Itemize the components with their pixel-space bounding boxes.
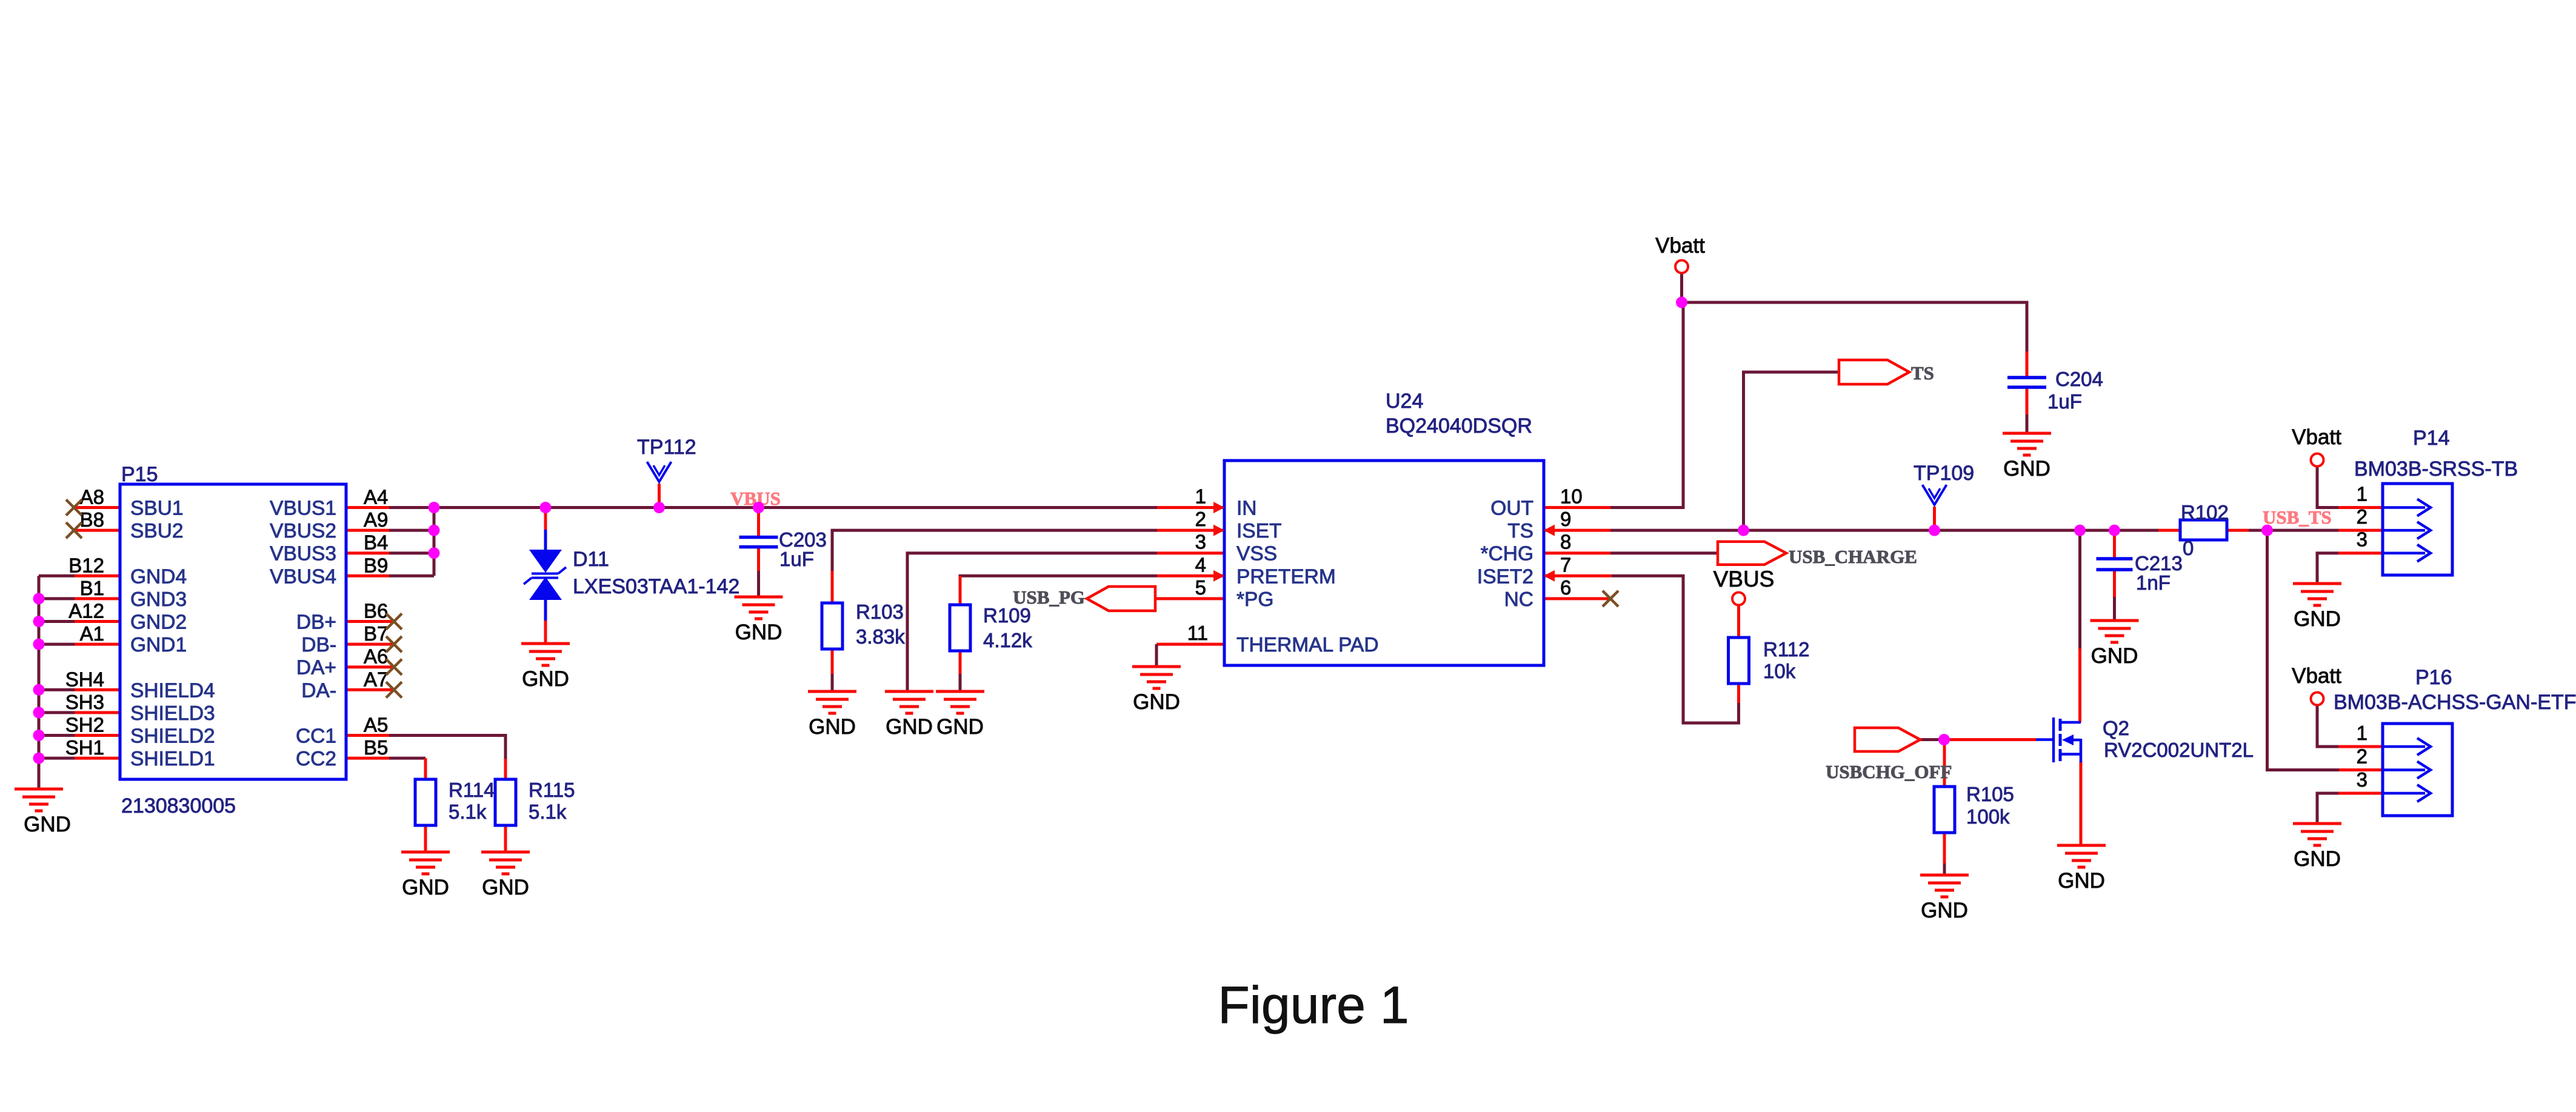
svg-text:1: 1 (1195, 485, 1206, 508)
ground symbol THERMAL PAD (1132, 667, 1181, 714)
power port Vbatt at P16 (2311, 693, 2324, 705)
svg-text:5: 5 (1195, 576, 1206, 599)
wire DB- stub no-connect (346, 643, 393, 646)
resistor R114 value (449, 801, 487, 823)
svg-text:GND2: GND2 (130, 611, 187, 634)
svg-text:GND: GND (1921, 899, 1968, 922)
wire VBUS2 VBUS3 VBUS4 bus (346, 508, 434, 576)
svg-text:3.83k: 3.83k (856, 625, 905, 648)
resistor R109 refdes (983, 604, 1031, 627)
svg-text:TP109: TP109 (1914, 462, 1974, 485)
svg-text:10: 10 (1560, 485, 1583, 508)
power port Vbatt at P16 label (2292, 664, 2341, 688)
port flag USB_CHARGE (1718, 542, 1786, 565)
wire R105 top (1943, 740, 1946, 787)
no-connect X DB- (386, 636, 402, 652)
svg-text:1: 1 (2357, 722, 2367, 744)
svg-text:5.1k: 5.1k (449, 801, 487, 823)
ground symbol C204 (2003, 433, 2051, 481)
svg-text:A9: A9 (364, 508, 388, 531)
diode D11 value (573, 575, 739, 598)
junction VBUS at D11 (540, 502, 552, 513)
svg-text:BM03B-SRSS-TB: BM03B-SRSS-TB (2354, 458, 2518, 481)
wire VSS net to GND (907, 553, 1224, 691)
testpoint TP112 refdes (637, 436, 696, 459)
IC U24 body (1224, 461, 1544, 665)
no-connect X NC (1603, 591, 1618, 607)
power port Vbatt at P14 label (2292, 425, 2341, 449)
ground symbol Q2 (2057, 845, 2106, 893)
capacitor C213 refdes (2135, 552, 2183, 574)
wire SHIELD3 stub (39, 711, 120, 714)
svg-text:*CHG: *CHG (1481, 543, 1533, 565)
svg-text:100k: 100k (1966, 805, 2010, 828)
wire R114 to GND (424, 825, 427, 852)
junction USB_TS at C213 (2109, 525, 2120, 536)
resistor R115 (495, 779, 516, 825)
ground symbol R103 (808, 691, 856, 739)
svg-text:B12: B12 (68, 554, 104, 576)
svg-text:2: 2 (2357, 745, 2367, 768)
svg-text:GND: GND (2294, 607, 2341, 631)
port flag USB_PG (1087, 587, 1155, 611)
IC U24 right pin names (1477, 498, 1533, 611)
svg-text:SHIELD3: SHIELD3 (130, 702, 215, 725)
svg-text:DA-: DA- (301, 679, 336, 702)
resistor R109 (950, 605, 970, 651)
svg-text:OUT: OUT (1490, 498, 1533, 520)
junction VBUS at bus (429, 502, 440, 513)
svg-text:SBU2: SBU2 (130, 520, 184, 542)
ground symbol P16 (2293, 824, 2341, 871)
capacitor C203 refdes (779, 528, 827, 551)
wire C204 to GND (2026, 388, 2029, 433)
port flag USB_CHARGE label (1789, 546, 1917, 567)
junction VBUS at C203 (753, 502, 764, 513)
connector P15 body (120, 484, 346, 779)
svg-text:A1: A1 (80, 622, 104, 645)
ground symbol D11 (521, 644, 570, 691)
wire D11 to GND (544, 620, 547, 644)
svg-text:GND: GND (2091, 644, 2138, 668)
IC U24 value BQ24040DSQR (1386, 415, 1532, 438)
resistor R103 refdes (856, 601, 904, 623)
junction USB_TS at TP109 (1929, 525, 1940, 536)
power port VBUS label (1713, 567, 1775, 591)
svg-text:B8: B8 (80, 508, 104, 531)
ground symbol P14 (2293, 584, 2341, 631)
svg-text:GND: GND (936, 715, 984, 739)
wire TP109 stub (1933, 507, 1936, 530)
resistor R103 value (856, 625, 905, 648)
svg-text:B6: B6 (364, 600, 388, 622)
svg-text:GND: GND (886, 715, 933, 739)
svg-text:B4: B4 (364, 531, 388, 554)
svg-text:SH1: SH1 (65, 736, 104, 759)
svg-text:LXES03TAA1-142: LXES03TAA1-142 (573, 575, 739, 598)
svg-text:A5: A5 (364, 714, 388, 736)
port flag USBCHG_OFF label (1826, 761, 1952, 782)
wire DA+ stub no-connect (346, 665, 393, 668)
svg-text:1uF: 1uF (779, 548, 814, 570)
svg-text:GND: GND (2294, 847, 2341, 871)
svg-text:A8: A8 (80, 486, 104, 508)
svg-text:TS: TS (1911, 362, 1934, 384)
svg-text:2: 2 (1195, 508, 1206, 530)
svg-text:9: 9 (1560, 508, 1571, 530)
ground symbol C213 (2090, 621, 2139, 668)
wire PRETERM net to R109 (960, 576, 1224, 605)
svg-text:RV2C002UNT2L: RV2C002UNT2L (2104, 739, 2254, 761)
connector P15 refdes (121, 463, 158, 486)
connector P15 left pin designators (65, 486, 104, 759)
ground symbol R115 (481, 852, 530, 899)
svg-text:1uF: 1uF (2047, 390, 2082, 413)
no-connect X DA- (386, 682, 402, 697)
svg-text:SHIELD1: SHIELD1 (130, 748, 215, 770)
svg-text:SHIELD2: SHIELD2 (130, 725, 215, 748)
svg-text:DB-: DB- (301, 634, 336, 656)
svg-text:GND: GND (2003, 457, 2050, 481)
ground symbol VSS (885, 691, 933, 739)
svg-text:SH3: SH3 (65, 691, 104, 713)
pin arrow ISET (1213, 525, 1224, 536)
transistor Q2 MOSFET (2036, 717, 2081, 762)
no-connect X SBU2 (66, 522, 82, 538)
svg-text:TS: TS (1507, 520, 1533, 542)
transistor Q2 value (2104, 739, 2254, 761)
svg-text:GND4: GND4 (130, 565, 187, 588)
connector P16 pin numbers (2357, 722, 2367, 791)
svg-text:BQ24040DSQR: BQ24040DSQR (1386, 415, 1532, 438)
wire USB_TS to P16 pin2 (2267, 530, 2383, 770)
svg-text:D11: D11 (573, 548, 609, 571)
connector P15 right pin names (270, 498, 336, 771)
svg-text:Vbatt: Vbatt (2292, 664, 2341, 688)
pin arrow ISET2 (1544, 570, 1555, 582)
diode D11 refdes (573, 548, 609, 571)
junction USB_TS at Q2 drain (2074, 525, 2086, 536)
caption Figure 1 (1218, 976, 1409, 1034)
wire Vbatt to P16 pin1 (2317, 705, 2383, 747)
pin arrow IN (1213, 502, 1224, 513)
svg-text:SH4: SH4 (65, 668, 104, 690)
wire DA- stub no-connect (346, 688, 393, 691)
svg-text:SBU1: SBU1 (130, 498, 184, 520)
port flag USBCHG_OFF (1855, 728, 1920, 751)
wire Vbatt rail to C204 (1682, 273, 2027, 378)
svg-text:1nF: 1nF (2136, 571, 2171, 594)
wire CC2 to R114 (346, 758, 425, 779)
wire C213 to GND (2113, 570, 2116, 621)
power port Vbatt label (1655, 234, 1705, 258)
svg-text:R115: R115 (529, 779, 575, 801)
transistor Q2 refdes (2103, 717, 2129, 739)
pin arrow TS (1544, 525, 1555, 536)
wire GND bus left vertical (38, 576, 41, 789)
capacitor C203 value (779, 548, 814, 570)
junction GND bus 4 (33, 684, 45, 696)
wire D11 top (544, 508, 547, 531)
svg-text:U24: U24 (1386, 390, 1423, 413)
ground symbol R105 (1920, 875, 1969, 922)
svg-text:VBUS1: VBUS1 (270, 498, 336, 520)
svg-text:6: 6 (1560, 576, 1571, 599)
svg-text:ISET: ISET (1236, 520, 1281, 542)
svg-text:Figure 1: Figure 1 (1218, 976, 1409, 1034)
connector P16 value BM03B-ACHSS-GAN-ETF (2334, 691, 2576, 714)
svg-text:BM03B-ACHSS-GAN-ETF: BM03B-ACHSS-GAN-ETF (2334, 691, 2576, 714)
svg-text:A7: A7 (364, 668, 388, 690)
wire SBU2 stub no-connect (74, 529, 120, 532)
wire ISET2 to R112 (1544, 576, 1739, 723)
svg-text:GND: GND (2058, 869, 2105, 893)
testpoint TP112 (647, 462, 672, 482)
svg-text:R102: R102 (2181, 501, 2229, 524)
svg-text:NC: NC (1504, 588, 1533, 611)
wire CC1 to R115 (346, 736, 506, 780)
wire TS net USB_TS run (1544, 529, 2383, 532)
svg-text:B1: B1 (80, 577, 104, 599)
resistor R114 (415, 779, 436, 825)
svg-text:B7: B7 (364, 622, 388, 645)
svg-text:USB_TS: USB_TS (2263, 507, 2332, 528)
connector P16 pin arrows (2383, 738, 2431, 802)
wire NC stub no-connect (1544, 597, 1610, 600)
port flag TS label (1911, 362, 1934, 384)
svg-text:GND: GND (735, 621, 782, 644)
svg-text:B5: B5 (364, 736, 388, 759)
resistor R109 value (983, 629, 1032, 651)
svg-text:R105: R105 (1966, 783, 2014, 805)
connector P15 value 2130830005 (121, 794, 236, 817)
svg-text:Vbatt: Vbatt (2292, 425, 2341, 449)
svg-text:VBUS2: VBUS2 (270, 520, 336, 542)
wire R109 to GND (959, 651, 962, 691)
no-connect X SBU1 (66, 500, 82, 516)
testpoint TP109 (1923, 485, 1947, 505)
wire P16 pin3 to GND (2317, 793, 2383, 824)
svg-text:3: 3 (1195, 531, 1206, 553)
wire THERMAL PAD to GND (1156, 644, 1224, 667)
junction Q2 gate (1938, 734, 1950, 745)
capacitor C213 value (2136, 571, 2171, 594)
wire DB+ stub no-connect (346, 620, 393, 623)
wire VBUS port to R112 (1737, 605, 1740, 638)
connector P14 pin numbers (2357, 483, 2367, 551)
svg-text:VSS: VSS (1236, 543, 1277, 565)
connector P14 body (2383, 484, 2452, 575)
connector P14 refdes (2413, 427, 2450, 450)
connector P16 body (2383, 724, 2452, 816)
svg-text:Vbatt: Vbatt (1655, 234, 1705, 258)
pin arrow PRETERM (1213, 570, 1224, 582)
resistor R105 refdes (1966, 783, 2014, 805)
junction VBUS2 (429, 525, 440, 536)
port flag USB_PG label (1013, 587, 1085, 608)
svg-text:8: 8 (1560, 531, 1571, 553)
wire P14 pin3 to GND (2317, 553, 2383, 584)
ground symbol left bus (15, 789, 71, 836)
capacitor C204 value (2047, 390, 2082, 413)
wire C213 top (2113, 530, 2116, 559)
capacitor C213 (2097, 559, 2133, 570)
wire GND3 stub (39, 597, 120, 600)
ground symbol R109 (936, 691, 984, 739)
wire Q2 source to GND (2080, 761, 2083, 845)
resistor R102 value 0 (2183, 537, 2194, 559)
svg-text:3: 3 (2357, 768, 2367, 791)
power port Vbatt at P14 (2311, 454, 2324, 467)
wire SHIELD1 stub (39, 757, 120, 760)
svg-text:A6: A6 (364, 645, 388, 668)
no-connect X DA+ (386, 659, 402, 675)
svg-text:GND: GND (522, 667, 569, 691)
resistor R115 refdes (529, 779, 575, 801)
svg-text:P16: P16 (2415, 666, 2452, 689)
svg-text:A12: A12 (68, 600, 104, 622)
wire GND1 stub (39, 643, 120, 646)
power port Vbatt at OUT (1675, 261, 1688, 273)
capacitor C204 refdes (2055, 368, 2103, 390)
svg-text:DA+: DA+ (296, 657, 336, 679)
connector P14 value BM03B-SRSS-TB (2354, 458, 2518, 481)
junction GND bus 7 (33, 753, 45, 764)
svg-text:ISET2: ISET2 (1477, 565, 1533, 588)
wire CHG to USB_CHARGE flag (1544, 551, 1718, 554)
wire GND2 stub (39, 620, 120, 623)
svg-text:USB_PG: USB_PG (1013, 587, 1085, 608)
testpoint TP109 refdes (1914, 462, 1974, 485)
resistor R114 refdes (449, 779, 495, 801)
svg-text:CC1: CC1 (296, 725, 336, 748)
resistor R103 (822, 603, 843, 649)
resistor R112 (1729, 638, 1749, 684)
wire SBU1 stub no-connect (74, 506, 120, 509)
junction VBUS3 (429, 547, 440, 559)
svg-text:Q2: Q2 (2103, 717, 2129, 739)
wire R105 to GND (1943, 833, 1946, 875)
wire R103 to GND (831, 649, 834, 691)
svg-text:SHIELD4: SHIELD4 (130, 679, 215, 702)
IC U24 left pin names (1236, 498, 1379, 657)
svg-text:4.12k: 4.12k (983, 629, 1032, 651)
junction GND bus 1 (33, 593, 45, 604)
svg-text:*PG: *PG (1236, 588, 1273, 611)
svg-text:THERMAL PAD: THERMAL PAD (1236, 634, 1379, 656)
wire SHIELD4 stub (39, 688, 120, 691)
svg-text:P15: P15 (121, 463, 158, 486)
svg-text:B9: B9 (364, 554, 388, 576)
svg-text:5.1k: 5.1k (529, 801, 567, 823)
wire C203 top (757, 508, 760, 538)
svg-text:A4: A4 (364, 486, 388, 508)
wire C203 to GND (757, 547, 760, 597)
wire TP112 stub (658, 484, 661, 508)
diode D11 TVS (524, 530, 566, 621)
svg-text:R103: R103 (856, 601, 904, 623)
wire ISET net to R103 (832, 530, 1224, 603)
wire VBUS net main run (346, 506, 1224, 509)
junction GND bus 2 (33, 616, 45, 627)
svg-text:IN: IN (1236, 498, 1257, 520)
wire R115 to GND (504, 825, 507, 852)
svg-text:VBUS4: VBUS4 (270, 565, 336, 588)
svg-text:GND1: GND1 (130, 634, 187, 656)
port flag TS (1839, 360, 1909, 384)
svg-text:CC2: CC2 (296, 748, 336, 770)
wire SHIELD2 stub (39, 734, 120, 737)
resistor R102 (2180, 520, 2227, 540)
svg-text:P14: P14 (2413, 427, 2450, 450)
no-connect X DB+ (386, 614, 402, 630)
svg-text:VBUS: VBUS (1713, 567, 1775, 591)
IC U24 refdes (1386, 390, 1423, 413)
power port VBUS circle (1732, 593, 1745, 605)
svg-text:1: 1 (2357, 483, 2367, 505)
wire USBCHG_OFF to Q2 gate (1920, 738, 2036, 741)
net label VBUS (730, 488, 781, 509)
connector P16 refdes (2415, 666, 2452, 689)
junction GND bus 3 (33, 639, 45, 650)
wire GND4 stub (39, 574, 120, 578)
svg-text:4: 4 (1195, 553, 1206, 576)
svg-text:R112: R112 (1763, 638, 1809, 661)
svg-text:C204: C204 (2055, 368, 2103, 390)
svg-text:GND3: GND3 (130, 588, 187, 611)
svg-text:GND: GND (24, 813, 71, 836)
resistor R105 (1934, 787, 1955, 833)
svg-text:TP112: TP112 (637, 436, 696, 459)
wire Q2 drain branch (2078, 530, 2081, 722)
IC U24 right pin numbers (1560, 485, 1583, 599)
wire Vbatt to P14 pin1 (2317, 467, 2383, 508)
connector P15 right pin designators (364, 486, 388, 759)
connector P14 pin arrows (2383, 499, 2431, 562)
capacitor C204 (2007, 378, 2046, 387)
junction GND bus 5 (33, 707, 45, 718)
junction USB_TS at TS flag (1738, 525, 1749, 536)
svg-text:7: 7 (1560, 553, 1571, 576)
svg-text:10k: 10k (1763, 660, 1796, 682)
connector P15 left pin names (130, 498, 215, 771)
resistor R112 refdes (1763, 638, 1809, 661)
wire TS flag branch (1744, 372, 1840, 530)
svg-text:VBUS3: VBUS3 (270, 543, 336, 565)
junction Vbatt rail (1676, 297, 1687, 308)
IC U24 left pin numbers (1187, 485, 1208, 645)
net label USB_TS (2263, 507, 2332, 528)
ground symbol R114 (401, 852, 450, 899)
resistor R112 value (1763, 660, 1796, 682)
resistor R102 refdes (2181, 501, 2229, 524)
svg-text:3: 3 (2357, 528, 2367, 551)
junction GND bus 6 (33, 730, 45, 741)
junction USB_TS at P16 branch (2261, 525, 2273, 536)
svg-text:0: 0 (2183, 537, 2194, 559)
capacitor C203 (739, 538, 778, 547)
svg-text:USB_CHARGE: USB_CHARGE (1789, 546, 1917, 567)
ground symbol C203 (735, 597, 783, 644)
svg-text:GND: GND (402, 876, 449, 899)
svg-text:USBCHG_OFF: USBCHG_OFF (1826, 761, 1952, 782)
svg-text:GND: GND (809, 715, 856, 739)
svg-text:11: 11 (1187, 622, 1208, 644)
wire OUT to Vbatt rail (1544, 302, 1683, 508)
svg-text:GND: GND (1133, 690, 1180, 714)
svg-text:2130830005: 2130830005 (121, 794, 236, 817)
wire USB_PG to pin5 (1155, 597, 1224, 600)
